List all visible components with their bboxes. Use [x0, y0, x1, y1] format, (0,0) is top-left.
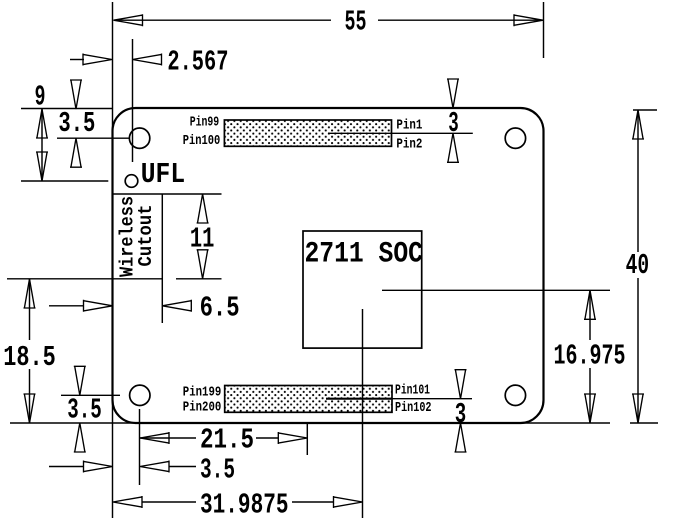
svg-text:3.5: 3.5	[58, 107, 95, 140]
svg-text:Pin102: Pin102	[395, 400, 432, 416]
mounting hole top-right	[505, 128, 525, 148]
svg-text:Pin2: Pin2	[396, 137, 422, 153]
wireless cutout bottom edge + left extension	[7, 278, 162, 280]
svg-text:11: 11	[190, 223, 215, 256]
center line hole top-left	[57, 137, 129, 139]
svg-text:Pin1: Pin1	[396, 118, 422, 134]
dimension 9 arrows	[41, 109, 43, 181]
svg-text:18.5: 18.5	[3, 341, 56, 374]
svg-text:UFL: UFL	[141, 158, 185, 191]
extension line connector center 21.5	[306, 423, 308, 455]
extension line UFL center	[21, 180, 108, 182]
svg-text:16.975: 16.975	[554, 340, 626, 373]
extension line below bottom-left hole	[139, 409, 141, 485]
connector J2 bottom header outline	[225, 386, 392, 413]
svg-text:9: 9	[35, 80, 46, 113]
extension line 40 dim top tick	[633, 109, 657, 111]
mounting hole bottom-right	[505, 385, 525, 405]
svg-text:Pin200: Pin200	[183, 400, 222, 416]
svg-text:3.5: 3.5	[67, 394, 102, 427]
svg-text:40: 40	[626, 249, 650, 282]
extension line board top edge left	[21, 108, 113, 110]
svg-text:Cutout: Cutout	[135, 205, 157, 267]
dimension 21.5 line	[140, 437, 196, 439]
svg-text:31.9875: 31.9875	[200, 489, 289, 518]
dimension 2.567 arrows	[70, 59, 84, 61]
connector J2 pin101/pin102 row line	[326, 398, 472, 400]
svg-text:6.5: 6.5	[200, 291, 240, 324]
extension line UFL x offset	[132, 39, 134, 162]
svg-text:3.5: 3.5	[200, 454, 235, 487]
svg-text:2.567: 2.567	[167, 45, 228, 78]
connector J1 pin1/pin2 row line	[328, 132, 473, 134]
dimension 3 top arrows	[447, 79, 459, 108]
UFL connector circle	[125, 175, 138, 188]
extension line board bottom right segment	[630, 422, 658, 424]
dimension 3.5 bottom arrows	[49, 466, 84, 468]
extension line board bottom edge	[10, 422, 610, 424]
wireless cutout top edge	[113, 193, 222, 195]
svg-text:Pin100: Pin100	[183, 133, 221, 149]
board outline	[113, 108, 544, 423]
2711 SOC box U1	[303, 231, 422, 348]
dimension 11 arrows	[197, 194, 209, 223]
connector J1 top header outline	[224, 120, 391, 146]
svg-text:Pin99: Pin99	[190, 115, 220, 131]
dimension 31.9875 line	[112, 501, 114, 503]
mounting hole bottom-left	[130, 385, 150, 405]
extension line 11 dim bottom	[176, 278, 222, 280]
wireless cutout right edge	[161, 194, 163, 323]
extension line SOC center 31.9875	[362, 309, 364, 518]
svg-text:Pin101: Pin101	[395, 383, 430, 399]
svg-text:2711 SOC: 2711 SOC	[305, 237, 424, 271]
center line hole bottom-left	[61, 394, 120, 396]
extension line SOC 16.975 ref	[382, 289, 610, 291]
svg-text:3: 3	[455, 398, 467, 431]
dimension 6.5 arrows	[49, 305, 84, 307]
dimension 3.5 bottom-left arrows	[74, 366, 86, 395]
svg-text:3: 3	[448, 107, 459, 140]
dimension 40 line	[637, 110, 639, 252]
mounting hole top-left	[129, 128, 149, 148]
dimension 3 bottom arrows	[455, 370, 467, 399]
svg-text:Pin199: Pin199	[183, 385, 222, 401]
svg-text:55: 55	[345, 6, 367, 39]
svg-text:21.5: 21.5	[200, 424, 254, 457]
extension line board right edge top	[543, 2, 545, 58]
dimension 18.5 line	[29, 279, 31, 340]
extension line board left edge full height	[112, 2, 114, 518]
dimension 3.5 top arrows	[70, 80, 82, 109]
dimension 16.975 line	[589, 290, 591, 340]
dimension 55 line	[114, 19, 332, 21]
